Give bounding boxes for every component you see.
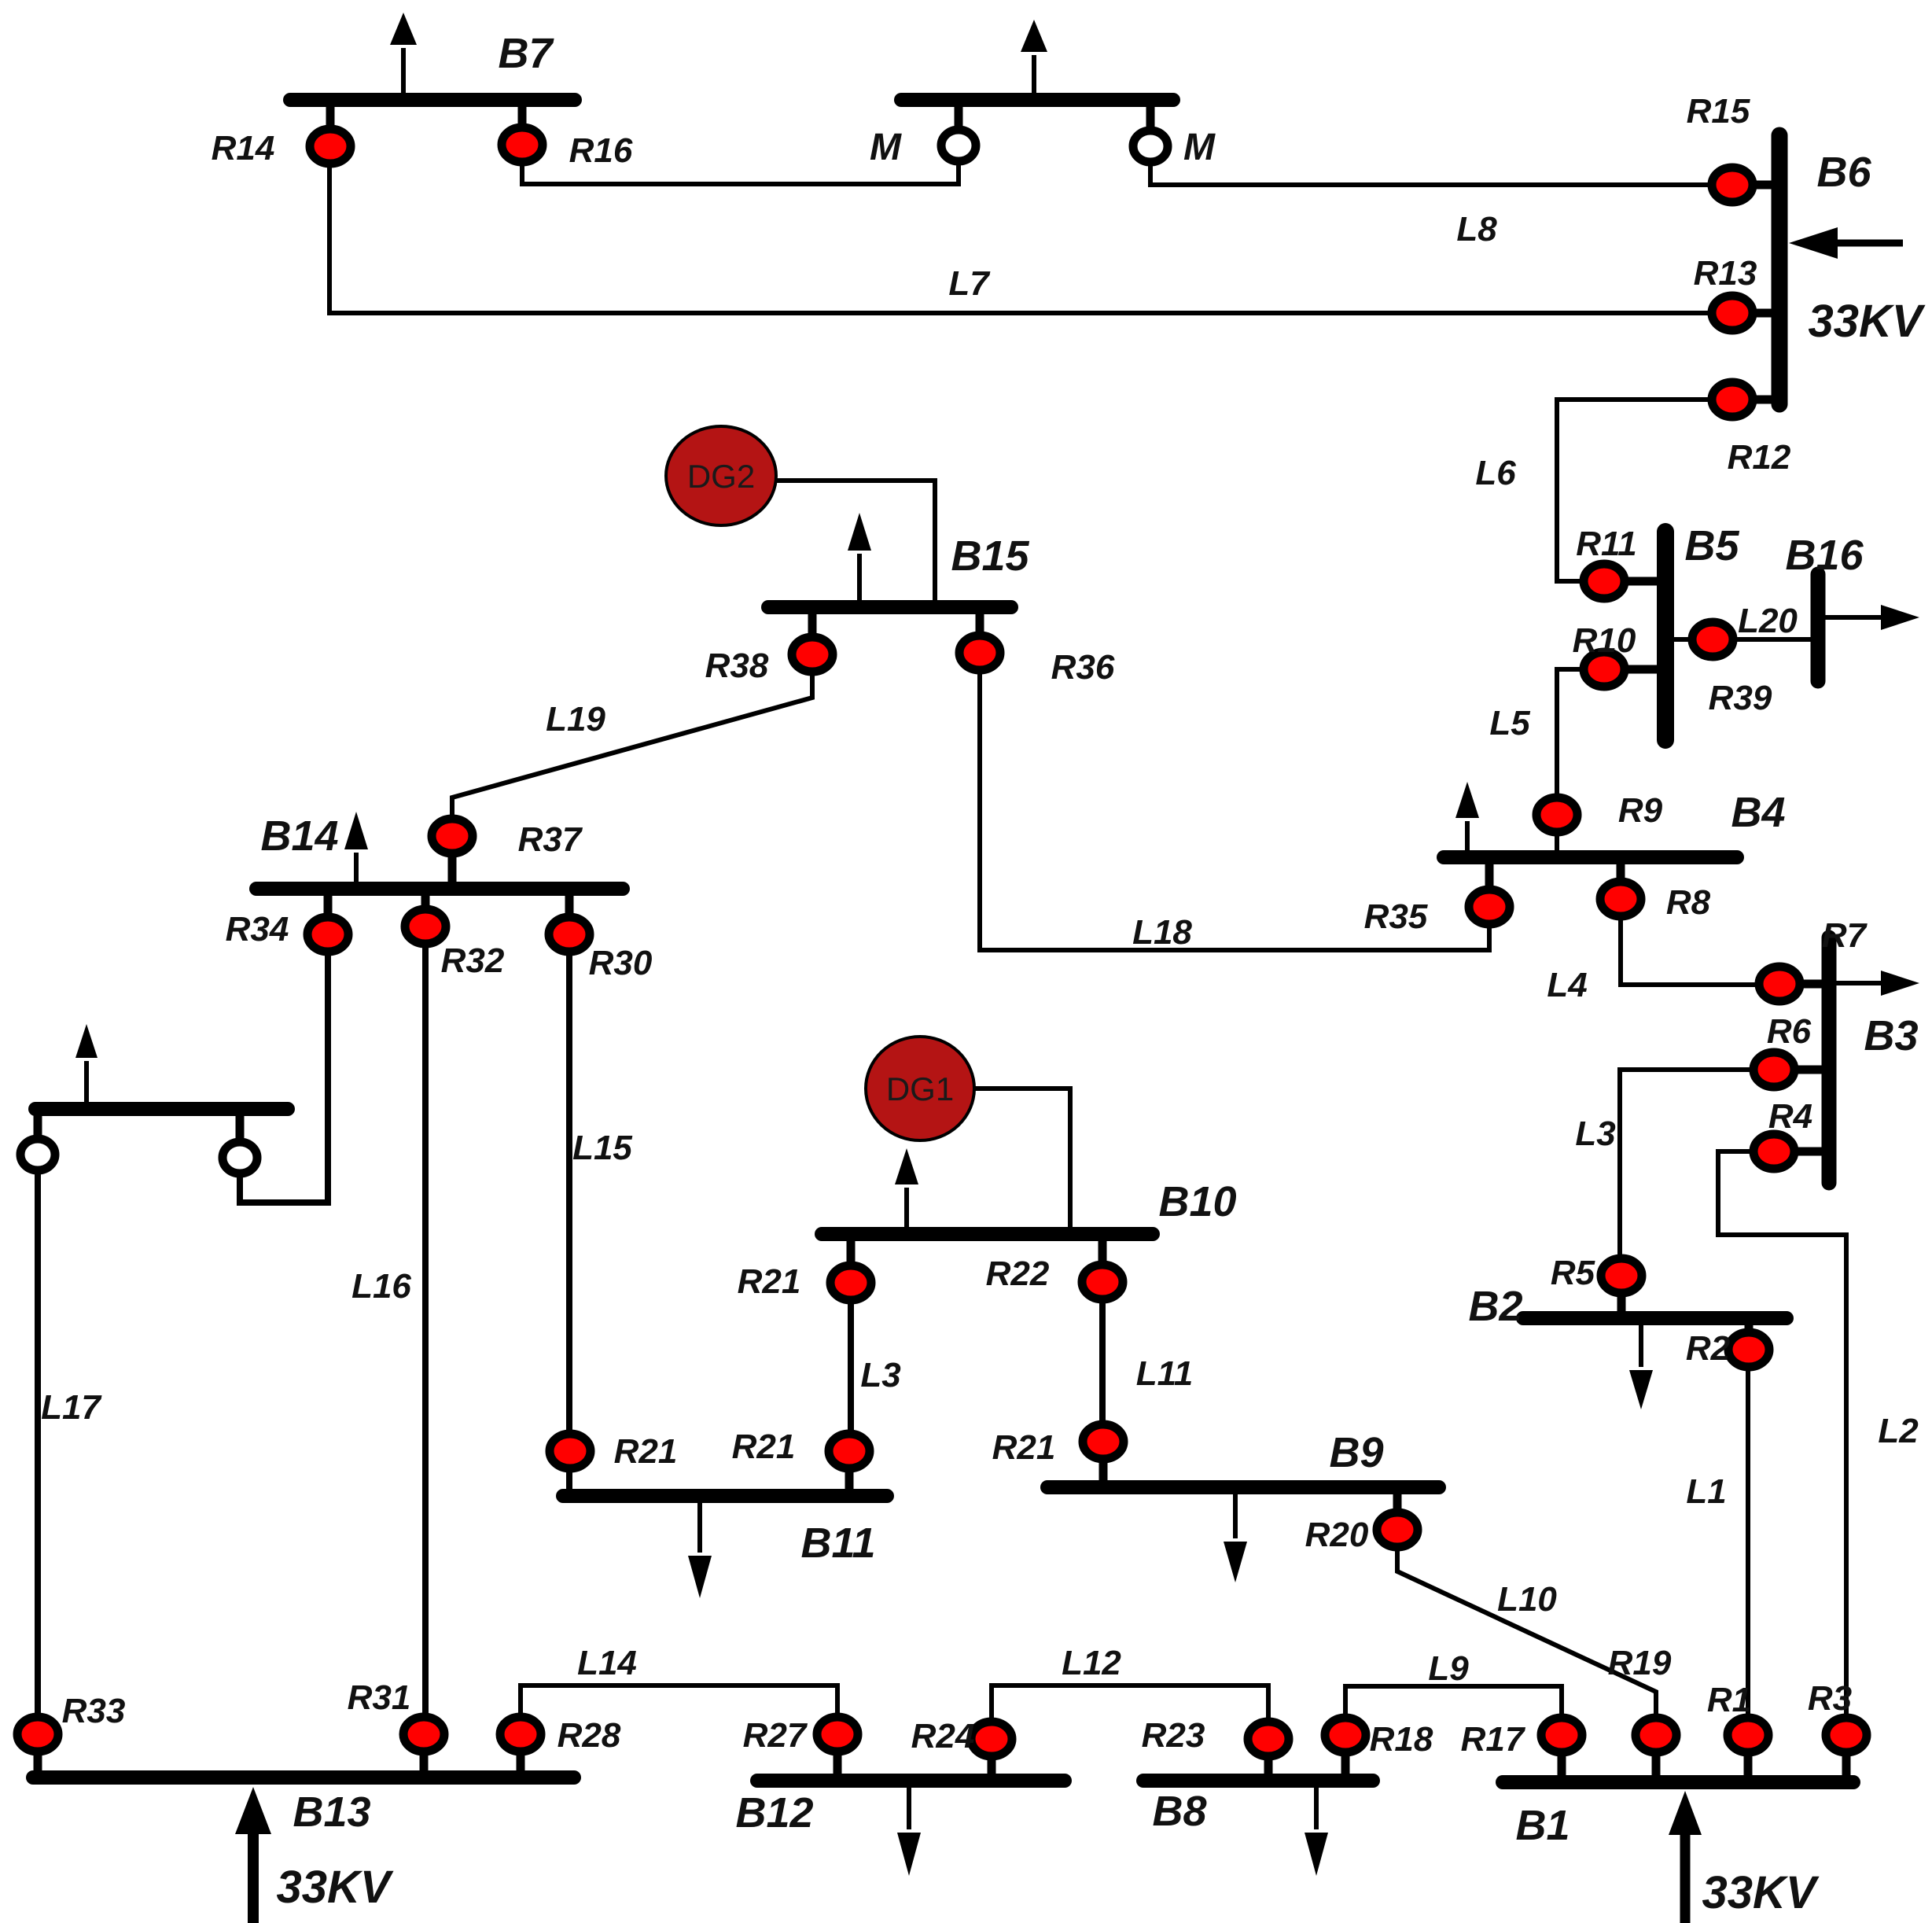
load arrow on bus M (1021, 20, 1047, 94)
svg-text:R6: R6 (1767, 1012, 1812, 1051)
switch M right (1133, 100, 1168, 162)
load arrow on B14 (344, 812, 368, 882)
load arrow on B8 (1305, 1787, 1328, 1876)
svg-text:B2: B2 (1468, 1283, 1522, 1330)
relay R36 (959, 607, 1000, 670)
bus B13 (33, 1770, 574, 1785)
svg-text:R12: R12 (1728, 438, 1791, 477)
wire line L8 (M to R15) (1150, 146, 1732, 185)
svg-text:L8: L8 (1456, 210, 1497, 249)
relay R5 (1601, 1258, 1642, 1318)
bus B2 (1523, 1311, 1787, 1325)
relay R15 (1712, 168, 1779, 202)
relay R3 (1826, 1718, 1867, 1782)
svg-text:R1: R1 (1707, 1681, 1751, 1719)
wire line L9 (R18 to R17) (1345, 1686, 1562, 1735)
wire line L11 (R22 to R21) (1099, 1282, 1106, 1442)
svg-text:B15: B15 (951, 532, 1029, 580)
svg-text:L15: L15 (572, 1129, 632, 1167)
svg-text:B1: B1 (1515, 1802, 1570, 1849)
bus B12 (757, 1774, 1065, 1788)
svg-text:R15: R15 (1687, 92, 1750, 131)
wire line L19 (R38 to R37) (452, 654, 812, 836)
bus B9 (1047, 1480, 1439, 1494)
svg-text:33KV: 33KV (276, 1862, 393, 1913)
svg-text:R2: R2 (1686, 1329, 1731, 1368)
relay R24 (971, 1722, 1012, 1781)
load arrow on B7 (390, 13, 417, 94)
svg-text:33KV: 33KV (1808, 296, 1925, 347)
relay R12 (1712, 382, 1779, 417)
svg-text:L9: L9 (1428, 1649, 1469, 1688)
svg-text:L2: L2 (1878, 1412, 1919, 1450)
svg-text:DG1: DG1 (886, 1070, 954, 1107)
svg-text:R3: R3 (1808, 1679, 1852, 1718)
load arrow on B2 (1629, 1324, 1653, 1409)
relay R21 on L11 (1083, 1424, 1124, 1487)
relay R11 (1584, 564, 1665, 599)
load arrow on B9 (1224, 1494, 1247, 1582)
wire line L14 (R28 to R27) (521, 1685, 837, 1734)
wire line L3 (R6 to R5) (1620, 1070, 1774, 1276)
svg-text:R27: R27 (743, 1716, 808, 1755)
generator DG2 (666, 426, 776, 525)
svg-text:B13: B13 (293, 1789, 370, 1836)
bus B1 (1503, 1775, 1853, 1789)
svg-text:B4: B4 (1731, 789, 1785, 836)
wire line L6 (R12 to R11) (1557, 400, 1732, 581)
source arrow 33KV into B1 (1669, 1791, 1702, 1923)
wire DG2 to B15 (775, 481, 935, 607)
svg-text:L6: L6 (1475, 454, 1516, 492)
svg-text:R20: R20 (1305, 1516, 1369, 1554)
svg-text:L18: L18 (1132, 913, 1192, 952)
relay R21 lower mid (829, 1434, 870, 1496)
relay R1 (1728, 1718, 1768, 1782)
wire line L17 (W1 to R33) (35, 1155, 41, 1734)
svg-text:DG2: DG2 (687, 458, 755, 495)
svg-text:R34: R34 (226, 910, 289, 949)
relay R13 (1712, 296, 1779, 330)
svg-text:R37: R37 (518, 820, 583, 859)
relay R9 (1536, 798, 1577, 832)
svg-text:33KV: 33KV (1702, 1867, 1819, 1918)
svg-text:M: M (870, 127, 902, 168)
relay R22 (1082, 1234, 1123, 1299)
relay R10 (1584, 652, 1665, 687)
relay R4 (1754, 1134, 1829, 1169)
svg-text:R9: R9 (1618, 791, 1663, 830)
bus B4 (1444, 850, 1737, 864)
svg-text:R21: R21 (732, 1428, 796, 1466)
relay R8 (1600, 857, 1641, 916)
relay R35 (1469, 857, 1510, 924)
svg-text:R10: R10 (1573, 621, 1636, 660)
bus B7 (290, 93, 575, 107)
bus left auxiliary (35, 1102, 288, 1116)
load arrow on B10 (895, 1148, 918, 1228)
wire line L16 (R32 to R31) (422, 927, 429, 1734)
svg-text:B14: B14 (260, 812, 338, 860)
svg-text:R33: R33 (62, 1692, 126, 1730)
relay R38 (792, 607, 833, 672)
relay R37 (432, 819, 473, 889)
svg-text:B7: B7 (498, 30, 554, 77)
wire DG1 to B10 (973, 1089, 1070, 1234)
wire line L5 (R10 to B4 through R9) (1557, 669, 1604, 851)
bus B5 (1657, 532, 1674, 740)
svg-text:R21: R21 (738, 1262, 801, 1301)
bus B6 (1772, 135, 1788, 404)
source arrow 33KV into B13 (235, 1787, 271, 1923)
relay R17 (1541, 1718, 1582, 1782)
svg-text:R24: R24 (911, 1717, 975, 1755)
svg-text:L7: L7 (948, 264, 991, 303)
wire R39 link B5 to B16 (1665, 637, 1818, 642)
load arrow on B3 (1836, 971, 1919, 996)
relay R31 (403, 1717, 444, 1777)
svg-text:R17: R17 (1461, 1720, 1526, 1759)
relay R6 (1754, 1052, 1829, 1087)
switch W1 (20, 1109, 55, 1170)
svg-text:R8: R8 (1666, 883, 1711, 922)
svg-text:R11: R11 (1576, 525, 1636, 563)
wire line L2 (R4 to R3) (1718, 1151, 1846, 1735)
relay R14 (310, 100, 351, 164)
svg-text:R16: R16 (569, 131, 633, 170)
generator DG1 (866, 1037, 974, 1140)
bus B8 (1143, 1774, 1373, 1788)
svg-text:B3: B3 (1864, 1012, 1918, 1059)
bus B16 (1811, 574, 1826, 681)
svg-text:B16: B16 (1785, 532, 1864, 579)
svg-text:R7: R7 (1822, 916, 1868, 955)
svg-text:L5: L5 (1489, 704, 1530, 742)
svg-text:B10: B10 (1158, 1178, 1236, 1225)
load arrow on B4 (1455, 782, 1479, 851)
relay R23 (1248, 1722, 1289, 1781)
load arrow on left bus (75, 1024, 98, 1103)
bus B15 (768, 600, 1011, 614)
svg-text:R22: R22 (986, 1254, 1050, 1293)
relay R27 (817, 1717, 858, 1781)
load arrow on B12 (897, 1787, 921, 1876)
svg-text:B6: B6 (1816, 149, 1871, 196)
wire line L15 (R30 to B11 through R21) (566, 934, 572, 1496)
svg-text:L3: L3 (1575, 1114, 1615, 1153)
relay R21 on L15 (550, 1434, 591, 1468)
svg-text:L20: L20 (1738, 602, 1798, 640)
load arrow L20 on B16 (1824, 605, 1919, 630)
wire line L18 (R36 to R35) (980, 653, 1489, 950)
svg-text:R21: R21 (992, 1428, 1056, 1467)
relay R7 (1759, 967, 1829, 1001)
svg-text:M: M (1183, 127, 1216, 168)
load arrow on B11 (688, 1503, 712, 1598)
relay R21 upper left (830, 1234, 871, 1300)
svg-text:B12: B12 (735, 1789, 813, 1836)
svg-text:L10: L10 (1497, 1580, 1557, 1619)
bus B14 (256, 882, 623, 896)
svg-text:B11: B11 (800, 1520, 875, 1567)
svg-text:B8: B8 (1152, 1788, 1206, 1835)
relay R16 (502, 100, 543, 162)
svg-text:L17: L17 (41, 1388, 102, 1427)
svg-text:R18: R18 (1370, 1720, 1433, 1759)
relay R2 (1728, 1318, 1769, 1367)
svg-text:L16: L16 (351, 1267, 411, 1306)
switch W2 (223, 1109, 257, 1173)
svg-text:R36: R36 (1051, 648, 1115, 687)
bus B3 (1822, 938, 1837, 1183)
wire line L4 (R8 to R7) (1621, 899, 1779, 985)
wire line L1 (R2 to R1) (1746, 1350, 1750, 1735)
wire R16 to M switch (522, 145, 959, 184)
relay R34 (307, 889, 348, 952)
bus B11 (563, 1489, 887, 1503)
svg-text:R19: R19 (1608, 1644, 1672, 1682)
bus B10 (822, 1227, 1153, 1241)
relay R30 (549, 889, 590, 952)
svg-text:R32: R32 (441, 941, 505, 980)
svg-text:L4: L4 (1547, 966, 1587, 1004)
relay R19 (1636, 1718, 1676, 1782)
wire line L12 (R24 to R23) (992, 1685, 1268, 1739)
svg-text:L3: L3 (860, 1356, 900, 1394)
relay R18 (1325, 1718, 1366, 1781)
svg-text:R23: R23 (1142, 1716, 1205, 1755)
svg-text:L14: L14 (577, 1644, 637, 1682)
bus M (top middle) (901, 93, 1173, 107)
wire line L10 (R20 to R19) (1397, 1530, 1656, 1735)
relay R39 (1692, 622, 1733, 657)
wire R34 to switch W2 (240, 934, 328, 1203)
svg-text:L11: L11 (1136, 1354, 1194, 1393)
svg-text:L19: L19 (546, 700, 605, 739)
relay R20 (1377, 1487, 1418, 1547)
svg-text:R31: R31 (348, 1678, 411, 1717)
svg-text:R30: R30 (589, 944, 653, 982)
wire line L7 (R14 to R13) (329, 146, 1732, 313)
svg-text:R28: R28 (558, 1716, 621, 1755)
wire line L3 lower (R21 to R21) (848, 1283, 854, 1451)
svg-text:R39: R39 (1709, 679, 1772, 717)
relay R28 (500, 1717, 541, 1777)
svg-text:L12: L12 (1062, 1644, 1121, 1682)
svg-text:R14: R14 (212, 129, 275, 168)
svg-text:R21: R21 (614, 1432, 678, 1471)
relay R33 (17, 1717, 58, 1777)
svg-text:R13: R13 (1694, 254, 1757, 293)
svg-text:R38: R38 (705, 647, 769, 685)
svg-text:B5: B5 (1684, 522, 1739, 569)
svg-text:R35: R35 (1364, 897, 1428, 936)
svg-text:B9: B9 (1329, 1429, 1383, 1476)
switch M left (941, 100, 976, 161)
relay R32 (405, 889, 446, 944)
svg-text:R5: R5 (1551, 1254, 1595, 1292)
svg-text:L1: L1 (1686, 1472, 1726, 1511)
svg-text:R4: R4 (1768, 1097, 1812, 1136)
source arrow 33KV into B6 (1789, 227, 1903, 259)
load arrow on B15 (848, 513, 871, 601)
